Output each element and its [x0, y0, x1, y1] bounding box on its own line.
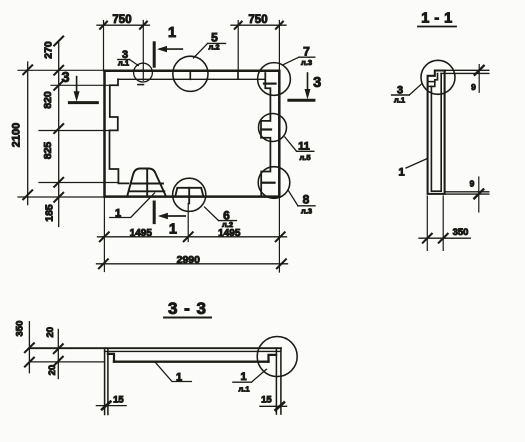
ticks: [99, 259, 108, 268]
callout circle top-right corner: [258, 63, 291, 96]
svg-text:825: 825: [42, 142, 54, 160]
ticks 2100: [23, 65, 32, 74]
liner plank bottom thick line: [114, 361, 269, 363]
overall 2100 dim line: [27, 62, 29, 205]
svg-text:1: 1: [398, 167, 404, 179]
svg-text:1 - 1: 1 - 1: [421, 11, 453, 27]
svg-text:л.5: л.5: [299, 153, 310, 162]
panel top inner line: [118, 78, 265, 80]
section marker 3 right: arrow: [307, 73, 309, 90]
svg-text:20: 20: [47, 365, 58, 376]
tick: [276, 22, 283, 29]
panel left flange inner profile: [110, 79, 129, 183]
svg-text:7: 7: [303, 45, 310, 59]
hook step lines: [428, 81, 435, 83]
right bottom key tick: [262, 182, 275, 184]
svg-text:л.2: л.2: [222, 220, 233, 229]
thickness dim vertical + tick bottom: [478, 177, 480, 212]
small dash under circle 3: [138, 84, 144, 86]
tick: [100, 22, 107, 29]
extension line center bottom: [187, 204, 189, 242]
section marker 1 bottom: arrow: [162, 215, 185, 217]
svg-text:л.1: л.1: [394, 96, 405, 105]
bottom dim line 1495/1495: [98, 236, 287, 238]
section marker 1 top: arrow: [160, 48, 182, 50]
circle at right end 3-3: [257, 337, 297, 377]
trapezoid center line: [146, 169, 148, 197]
callout circle 1-1 top: [421, 60, 455, 94]
callout circle right middle: [259, 114, 287, 142]
trapezoid inner line 1: [131, 183, 163, 185]
web bottom extension line left: [30, 361, 105, 363]
svg-text:1: 1: [240, 371, 246, 383]
section marker 1 bottom: bar: [153, 202, 156, 223]
15 dim left: [96, 405, 126, 407]
extension line right of 750R (long, down to bottom dims): [278, 21, 280, 273]
dim line 750 left: [97, 24, 150, 26]
dim line 750 right: [231, 24, 286, 26]
svg-text:1: 1: [168, 25, 176, 41]
web top skin line: [30, 347, 281, 349]
bottom key center line: [188, 188, 190, 204]
svg-text:750: 750: [248, 14, 267, 26]
channel inner lines: [431, 74, 441, 192]
ticks: [100, 232, 109, 241]
trapezoid inner line 2: [129, 190, 164, 192]
svg-text:1495: 1495: [130, 228, 153, 239]
ticks: [423, 234, 432, 243]
right corner key tick: [264, 82, 276, 84]
panel outer outline: [105, 71, 280, 197]
svg-text:3: 3: [313, 75, 321, 91]
section marker 3 left: bar: [69, 101, 97, 104]
svg-text:л.2: л.2: [208, 43, 219, 52]
right middle key tick: [262, 128, 272, 130]
extension line bottom (panel bottom to left): [18, 196, 105, 198]
right flange verticals: [275, 348, 277, 414]
svg-text:750: 750: [112, 14, 131, 26]
svg-text:9: 9: [471, 82, 476, 92]
callout circle right bottom: [258, 167, 290, 199]
tick: [235, 22, 242, 29]
bottom key trapezoid in circle: [175, 188, 203, 196]
svg-text:л.3: л.3: [301, 207, 312, 216]
svg-text:9: 9: [470, 179, 475, 189]
extension line left bottom: [103, 197, 105, 272]
rib tick in circle 5: [189, 72, 191, 80]
left segment dimension chain line: [58, 41, 60, 227]
left dims 350 line: [28, 322, 30, 373]
svg-text:2990: 2990: [177, 254, 201, 266]
section marker 3 left: arrow: [76, 77, 78, 93]
extension line notch 3: [39, 182, 118, 184]
svg-text:1495: 1495: [218, 228, 241, 239]
bottom overall dim line 2990: [97, 263, 288, 265]
svg-text:3: 3: [62, 70, 70, 86]
svg-text:2100: 2100: [11, 123, 23, 147]
svg-text:3 - 3: 3 - 3: [168, 299, 207, 318]
350 dim extension lines: [426, 196, 428, 250]
extension line notch 1: [51, 84, 110, 86]
section marker 1 top: bar: [153, 43, 156, 66]
svg-text:л.1: л.1: [118, 59, 129, 68]
350 dim line: [419, 237, 470, 239]
web top skin inner line: [105, 350, 281, 352]
chain ticks: [54, 37, 63, 46]
svg-text:л.3: л.3: [301, 58, 312, 67]
left flange verticals: [104, 348, 106, 414]
liner right Z-step: [269, 355, 277, 362]
bottom rib trapezoid: [128, 169, 166, 195]
callout circle 5 top: [173, 56, 208, 91]
svg-text:1: 1: [169, 222, 177, 238]
extension line top (panel top to left): [18, 69, 105, 71]
svg-text:350: 350: [15, 321, 26, 337]
svg-text:20: 20: [45, 327, 56, 338]
bottom right thickness lines: [445, 191, 489, 193]
extension line right of 750L: [142, 21, 144, 81]
svg-text:15: 15: [261, 394, 272, 405]
tick: [140, 22, 147, 29]
svg-text:15: 15: [113, 394, 124, 405]
svg-text:8: 8: [303, 193, 310, 207]
callout circle on bottom rib: [173, 178, 206, 211]
15 dim right: [260, 405, 287, 407]
small callout circle top-left: [134, 63, 153, 82]
svg-text:350: 350: [453, 227, 469, 238]
extension line left of 750R: [237, 21, 239, 80]
svg-text:820: 820: [42, 91, 54, 109]
thickness dim vertical + tick top: [478, 65, 480, 93]
extension line notch 2: [39, 130, 110, 132]
section marker 3 right: bar: [289, 99, 314, 102]
svg-text:270: 270: [43, 41, 55, 59]
svg-text:185: 185: [44, 204, 56, 222]
left dims 20/20 line: [57, 329, 59, 378]
channel section outline: [428, 71, 445, 194]
svg-text:л.1: л.1: [238, 385, 249, 394]
panel right flange inner profile with keys: [261, 73, 270, 195]
top right thickness lines: [445, 69, 489, 71]
rib tick at x=238: [237, 72, 239, 80]
liner left Z-step: [108, 354, 114, 362]
extension line left of 750L: [103, 21, 105, 71]
